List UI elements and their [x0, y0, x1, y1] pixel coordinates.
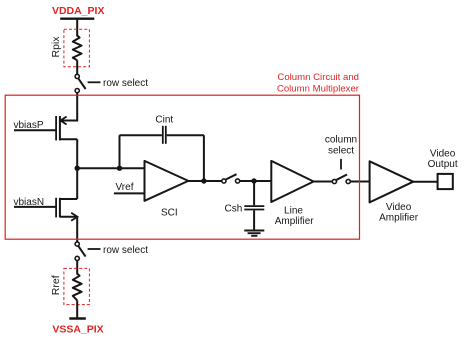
VDDA_PIX supply rail: [60, 18, 94, 20]
wire: NMOS source down to switch: [76, 217, 78, 242]
svg-text:Cint: Cint: [155, 114, 173, 125]
column select pointer line: [340, 159, 342, 170]
box: Column Circuit and Column Multiplexer: [5, 95, 359, 239]
amplifier Video Amplifier: [370, 161, 414, 202]
svg-text:Video: Video: [430, 148, 456, 159]
amplifier Line Amplifier: [271, 161, 313, 202]
svg-text:Rref: Rref: [50, 275, 62, 295]
svg-text:Line: Line: [284, 205, 303, 216]
wire: Rpix to row select switch: [76, 60, 78, 74]
wire: VDDA rail to Rpix: [76, 19, 78, 37]
wire: switch to PMOS source: [76, 93, 78, 122]
wire: switch to Rref: [76, 261, 78, 275]
switch: column select: [332, 179, 336, 183]
svg-text:column: column: [325, 135, 357, 146]
wire: video amp to output pad: [413, 181, 437, 183]
svg-text:Vref: Vref: [116, 182, 134, 193]
node: SCI output dot: [201, 178, 206, 183]
svg-text:Csh: Csh: [225, 204, 243, 215]
wire: switch to line amplifier: [240, 180, 271, 182]
wire: line amp to column select switch: [314, 181, 333, 183]
svg-text:Amplifier: Amplifier: [379, 212, 419, 223]
svg-text:vbiasP: vbiasP: [14, 120, 44, 131]
Rpix dashed highlight box: [64, 29, 90, 67]
transistor vbiasN (NMOS): [14, 198, 77, 221]
wire: SCI output: [188, 180, 222, 182]
svg-text:select: select: [328, 146, 354, 157]
svg-text:VSSA_PIX: VSSA_PIX: [52, 324, 103, 336]
Rref dashed highlight box: [64, 268, 90, 304]
svg-text:Column Multiplexer: Column Multiplexer: [277, 84, 360, 95]
svg-text:Amplifier: Amplifier: [275, 216, 315, 227]
wire: Rref to VSSA rail: [76, 300, 78, 318]
capacitor Csh: [244, 181, 264, 230]
svg-text:vbiasN: vbiasN: [14, 197, 45, 208]
capacitor Cint: [120, 126, 204, 181]
node: Cint input tap dot: [117, 166, 122, 171]
svg-text:SCI: SCI: [161, 208, 178, 219]
svg-text:Video: Video: [386, 202, 412, 213]
row select (bottom) pointer line: [88, 248, 101, 250]
svg-text:row select: row select: [103, 245, 148, 256]
transistor vbiasP (PMOS): [14, 116, 77, 140]
switch: sample SCI to Csh: [222, 179, 226, 183]
svg-text:VDDA_PIX: VDDA_PIX: [52, 5, 105, 17]
svg-text:Column Circuit and: Column Circuit and: [277, 72, 359, 83]
op-amp SCI: [145, 161, 189, 201]
wire: node A to SCI input: [77, 167, 144, 169]
resistor Rref: [73, 274, 82, 301]
switch: row select (top): [75, 74, 79, 78]
wire: PMOS drain to node A: [76, 139, 78, 168]
switch: row select (bottom): [75, 242, 79, 246]
row select (top) pointer line: [88, 81, 101, 83]
svg-text:row select: row select: [103, 78, 148, 89]
VSSA_PIX supply rail: [69, 317, 86, 319]
wire: Vref input: [114, 192, 145, 194]
svg-text:Rpix: Rpix: [50, 36, 62, 58]
wire: column switch to video amplifier: [350, 181, 369, 183]
Video Output pad: [438, 174, 453, 189]
node A junction dot: [75, 166, 80, 171]
resistor Rpix: [73, 36, 82, 61]
svg-text:Output: Output: [428, 159, 458, 170]
ground: [244, 231, 264, 236]
wire: node A to NMOS drain: [76, 168, 78, 199]
node: Csh tap dot: [251, 178, 256, 183]
